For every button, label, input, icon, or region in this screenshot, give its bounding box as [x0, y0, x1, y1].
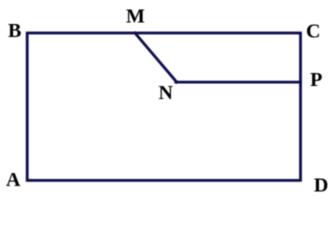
wire rectangle ABCD	[27, 33, 300, 180]
wire segment N-P	[176, 81, 301, 84]
svg-text:M: M	[126, 5, 145, 27]
svg-text:P: P	[310, 69, 322, 91]
svg-text:D: D	[314, 175, 328, 194]
svg-text:N: N	[158, 82, 173, 104]
svg-text:A: A	[6, 169, 21, 191]
svg-text:C: C	[306, 21, 320, 43]
wire segment M-N	[135, 33, 177, 82]
svg-text:B: B	[8, 20, 21, 42]
